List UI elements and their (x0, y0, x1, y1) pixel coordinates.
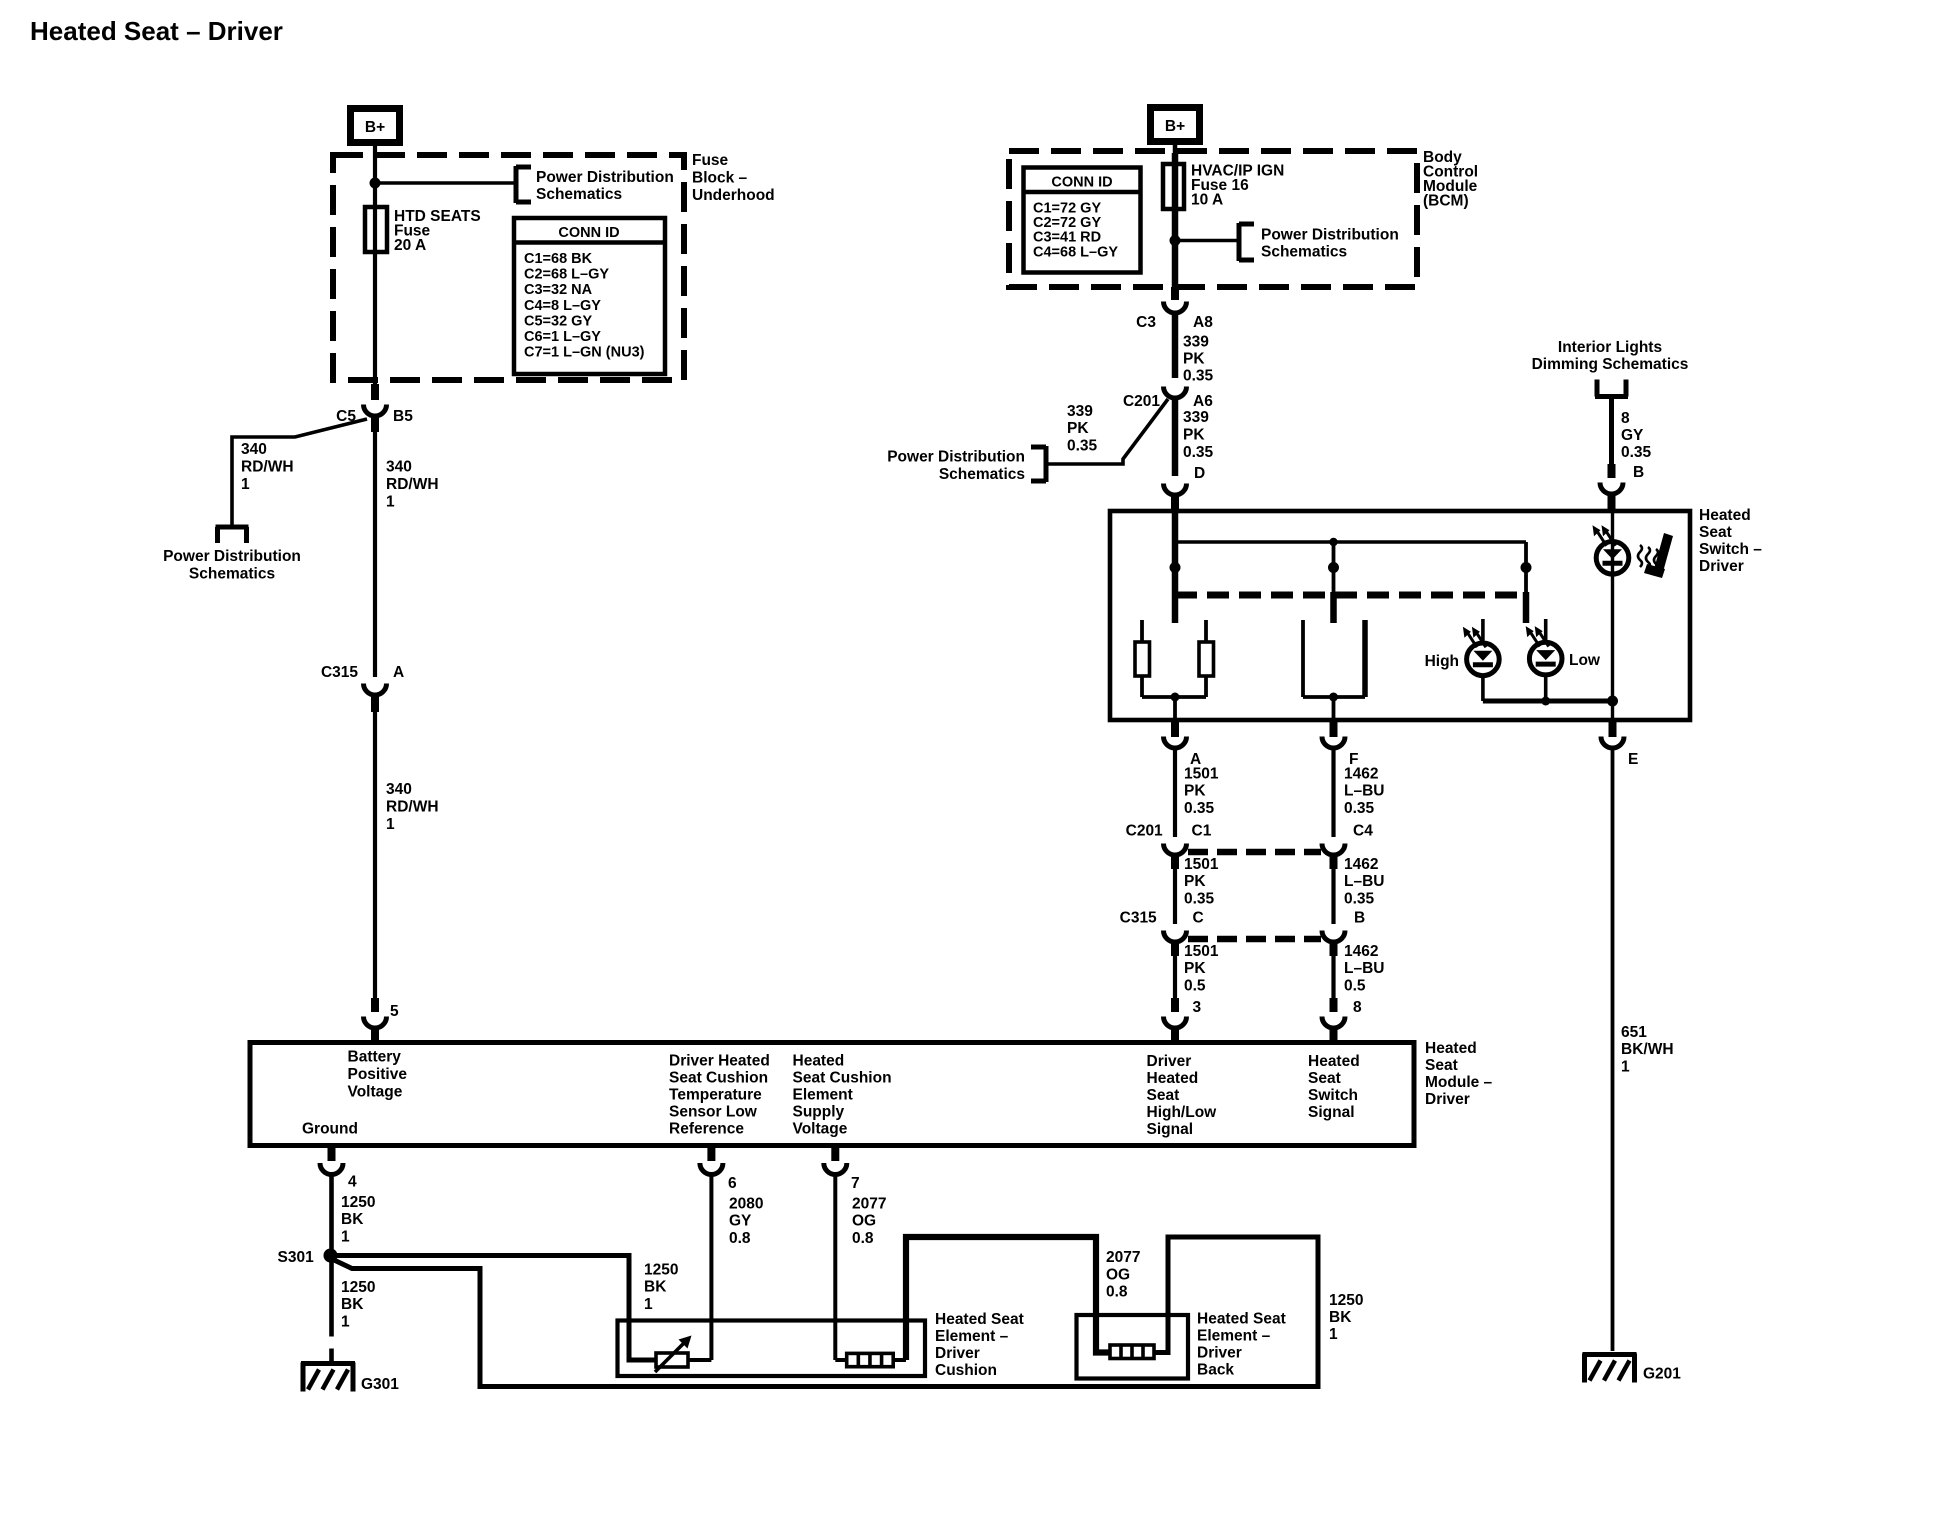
connector pin 6 (module) (700, 1163, 737, 1192)
svg-text:B+: B+ (365, 119, 385, 136)
svg-text:0.35: 0.35 (1621, 444, 1652, 461)
svg-text:1250: 1250 (341, 1279, 375, 1296)
svg-text:C6=1 L–GY: C6=1 L–GY (524, 329, 601, 345)
svg-text:Module –: Module – (1425, 1074, 1493, 1091)
label Battery Positive Voltage (348, 1049, 408, 1101)
wire pin 6 to temp sensor (707, 1148, 715, 1360)
heater element driver back (1110, 1345, 1154, 1359)
svg-text:1250: 1250 (644, 1262, 678, 1279)
svg-text:PK: PK (1183, 427, 1205, 444)
svg-text:CONN ID: CONN ID (558, 225, 619, 241)
LED switch illumination (power indicator) (1593, 512, 1629, 701)
svg-text:1501: 1501 (1184, 943, 1219, 960)
svg-text:Switch: Switch (1308, 1087, 1358, 1104)
wire pole 2 (1332, 542, 1336, 623)
heated seat module box (250, 1043, 1414, 1146)
ground G301 (301, 1363, 399, 1394)
svg-text:C1=68 BK: C1=68 BK (524, 251, 593, 267)
connector pin F (switch) (1322, 737, 1358, 769)
label 1250 BK 1 (sensor leg) (644, 1262, 678, 1314)
svg-text:0.35: 0.35 (1344, 891, 1375, 908)
svg-text:Power Distribution: Power Distribution (887, 449, 1025, 466)
svg-text:4: 4 (348, 1174, 357, 1191)
node junction on left feed (370, 178, 381, 189)
svg-text:B5: B5 (393, 408, 413, 425)
svg-text:Driver: Driver (935, 1345, 980, 1362)
connector C315 / B (1322, 910, 1365, 957)
wire junction to bracket (BCM) (1175, 239, 1238, 243)
svg-text:Seat: Seat (1699, 524, 1732, 541)
svg-text:1462: 1462 (1344, 943, 1378, 960)
svg-text:10 A: 10 A (1191, 192, 1223, 209)
svg-text:BK: BK (644, 1279, 667, 1296)
connector C315 / C (1120, 910, 1204, 957)
node pole dots (1170, 562, 1532, 573)
wire pin E stub (1611, 701, 1614, 737)
svg-text:High: High (1425, 653, 1459, 670)
label Body Control Module (BCM) (1423, 149, 1478, 210)
svg-text:Heated: Heated (1308, 1053, 1360, 1070)
svg-text:Heated Seat: Heated Seat (1197, 1311, 1286, 1328)
svg-text:CONN ID: CONN ID (1051, 175, 1112, 191)
svg-text:5: 5 (390, 1003, 399, 1020)
svg-text:1462: 1462 (1344, 856, 1378, 873)
heated seat switch box (1110, 511, 1690, 720)
svg-text:Schematics: Schematics (939, 466, 1025, 483)
svg-text:C315: C315 (1120, 910, 1161, 927)
wire C315 to module pin 5 (371, 694, 379, 1012)
svg-text:C1=72 GY: C1=72 GY (1033, 201, 1101, 217)
svg-text:Fuse: Fuse (692, 152, 729, 169)
svg-text:Heated: Heated (1147, 1070, 1199, 1087)
label 340 RD/WH 1 (main) (386, 459, 439, 511)
svg-text:C5=32 GY: C5=32 GY (524, 313, 592, 329)
wire pole 3 (1524, 542, 1528, 623)
svg-text:Signal: Signal (1308, 1104, 1355, 1121)
label 339 PK 0.35 / D (1183, 409, 1214, 482)
wire 1501 PK (C201 to C315) (1173, 866, 1177, 924)
wire 8 GY to connector B (1609, 396, 1614, 478)
svg-text:Driver: Driver (1699, 558, 1744, 575)
svg-text:1: 1 (386, 816, 395, 833)
connector pin E (switch) (1601, 737, 1638, 769)
svg-text:C4=68 L–GY: C4=68 L–GY (1033, 244, 1118, 260)
LED Low indicator (1526, 619, 1601, 701)
svg-text:8: 8 (1353, 999, 1362, 1016)
dashed connector link C315 (1188, 936, 1321, 943)
svg-text:A8: A8 (1193, 314, 1213, 331)
label 340 RD/WH 1 (branch) (241, 441, 294, 493)
connector pin 8 (module) (1322, 1017, 1345, 1042)
heated seat element driver cushion box (618, 1321, 926, 1377)
node contact A join (1171, 693, 1180, 702)
svg-text:Seat Cushion: Seat Cushion (793, 1070, 892, 1087)
wire pin A stub (1173, 697, 1177, 737)
connector B (switch) (1600, 483, 1623, 513)
svg-text:E: E (1628, 751, 1638, 768)
svg-text:Signal: Signal (1147, 1121, 1194, 1138)
dashed connector link C201 (1188, 849, 1321, 856)
svg-text:C4: C4 (1353, 823, 1373, 840)
LED High indicator (1425, 619, 1500, 701)
svg-text:A: A (393, 664, 404, 681)
svg-text:Block –: Block – (692, 170, 748, 187)
svg-text:Heated: Heated (793, 1053, 845, 1070)
svg-text:RD/WH: RD/WH (241, 459, 294, 476)
svg-text:0.35: 0.35 (1183, 368, 1214, 385)
svg-text:B: B (1354, 910, 1365, 927)
svg-text:PK: PK (1184, 783, 1206, 800)
wire D pole feed inside switch (1172, 512, 1179, 623)
svg-text:C2=68 L–GY: C2=68 L–GY (524, 267, 609, 283)
svg-text:7: 7 (851, 1175, 860, 1192)
svg-text:Element –: Element – (1197, 1328, 1271, 1345)
wire junction to power distribution bracket (375, 181, 516, 185)
off-page reference Power Distribution Schematics (left) (163, 527, 301, 583)
label 8 GY 0.35 / B (1621, 410, 1652, 481)
power symbol B+ (left) (351, 109, 400, 143)
svg-text:Heated: Heated (1425, 1040, 1477, 1057)
wire 1462 L-BU (F to C201) (1331, 748, 1335, 837)
svg-text:0.8: 0.8 (852, 1230, 874, 1247)
label 1462 L-BU 0.35 (mid) (1344, 856, 1384, 908)
svg-text:Seat: Seat (1308, 1070, 1341, 1087)
svg-text:1501: 1501 (1184, 856, 1219, 873)
svg-text:High/Low: High/Low (1147, 1104, 1218, 1121)
svg-text:340: 340 (241, 441, 267, 458)
power symbol B+ (right) (1151, 108, 1200, 142)
svg-text:6: 6 (728, 1175, 737, 1192)
svg-text:OG: OG (1106, 1267, 1130, 1284)
node LED bus dots (1541, 696, 1618, 707)
connector C201 / C4 (1322, 823, 1373, 870)
svg-text:Power Distribution: Power Distribution (163, 548, 301, 565)
wire 1501 PK (A to C201) (1173, 748, 1177, 837)
svg-text:340: 340 (386, 459, 412, 476)
svg-text:C201: C201 (1123, 393, 1160, 410)
svg-text:Driver: Driver (1147, 1053, 1192, 1070)
svg-text:Back: Back (1197, 1362, 1234, 1379)
svg-text:C: C (1193, 910, 1204, 927)
body control module dashed box (1009, 151, 1417, 287)
wire 651 BK/WH (E to G201) (1611, 748, 1615, 1351)
svg-text:GY: GY (729, 1213, 752, 1230)
connector C5 / B5 (336, 405, 413, 426)
wire switch feed bus (1175, 540, 1526, 544)
wire B5 to C315 (340 RD/WH) (371, 415, 379, 677)
wire 339 PK C201 to D (1172, 398, 1179, 476)
CONN ID table (fuse block underhood) (514, 218, 665, 374)
svg-text:Low: Low (1569, 652, 1601, 669)
svg-text:0.35: 0.35 (1184, 800, 1215, 817)
wire 1501 PK (C315 to pin 3) (1173, 953, 1177, 1012)
svg-text:340: 340 (386, 781, 412, 798)
svg-text:PK: PK (1184, 960, 1206, 977)
svg-text:C4=8 L–GY: C4=8 L–GY (524, 298, 601, 314)
svg-text:C3=32 NA: C3=32 NA (524, 282, 593, 298)
svg-text:0.5: 0.5 (1184, 978, 1206, 995)
connector C315 / A (left) (321, 664, 404, 695)
connector C3 / A8 (1136, 302, 1213, 332)
svg-text:1250: 1250 (1329, 1292, 1363, 1309)
svg-text:Sensor Low: Sensor Low (669, 1104, 758, 1121)
svg-text:PK: PK (1183, 351, 1205, 368)
label Heated Seat Switch Signal (1308, 1053, 1360, 1121)
svg-text:Reference: Reference (669, 1121, 744, 1138)
wire 1250 BK pin 4 to S301 (329, 1174, 334, 1250)
svg-text:BK: BK (341, 1211, 364, 1228)
label Driver Heated Seat High/Low Signal (1147, 1053, 1218, 1138)
label Heated Seat Element - Driver Back (1197, 1311, 1286, 1379)
svg-text:BK: BK (1329, 1309, 1352, 1326)
label Fuse Block - Underhood (692, 152, 775, 204)
wire BCM to C3 (1171, 287, 1179, 300)
splice S301 (277, 1249, 337, 1267)
svg-text:1: 1 (644, 1296, 653, 1313)
label Heated Seat Cushion Element Supply Voltage (793, 1053, 892, 1138)
svg-text:1: 1 (1329, 1326, 1338, 1343)
label 340 RD/WH 1 (lower) (386, 781, 439, 833)
heated seat element driver back box (1077, 1315, 1189, 1379)
svg-text:1501: 1501 (1184, 766, 1219, 783)
svg-text:Element: Element (793, 1087, 853, 1104)
svg-text:PK: PK (1067, 420, 1089, 437)
svg-text:339: 339 (1183, 409, 1209, 426)
label Heated Seat Module - Driver (1425, 1040, 1493, 1108)
svg-text:0.35: 0.35 (1183, 444, 1214, 461)
svg-text:0.8: 0.8 (729, 1230, 751, 1247)
svg-text:0.35: 0.35 (1067, 438, 1098, 455)
svg-text:Seat: Seat (1147, 1087, 1180, 1104)
mechanical link dashed (switch) (1175, 592, 1528, 599)
svg-text:Interior Lights: Interior Lights (1558, 339, 1662, 356)
svg-text:2077: 2077 (852, 1196, 886, 1213)
svg-text:Heated Seat: Heated Seat (935, 1311, 1024, 1328)
node contact F join (1329, 693, 1338, 702)
heater element driver cushion (835, 1353, 906, 1366)
label 1250 BK 1 (ground leg) (341, 1279, 375, 1331)
node bus tee (1329, 538, 1337, 546)
svg-text:C2=72 GY: C2=72 GY (1033, 215, 1101, 231)
connector pin 4 (module) (320, 1148, 357, 1191)
ground G201 (1583, 1354, 1682, 1383)
label 2077 OG 0.8 (pin 7) (852, 1196, 886, 1248)
svg-text:Supply: Supply (793, 1104, 845, 1121)
label 2077 OG 0.8 (jumper) (1106, 1249, 1140, 1301)
svg-text:2077: 2077 (1106, 1249, 1140, 1266)
label Heated Seat Switch - Driver (1699, 507, 1762, 575)
svg-text:A6: A6 (1193, 393, 1213, 410)
svg-text:S301: S301 (277, 1249, 318, 1266)
label HVAC/IP IGN Fuse 16 10 A (1191, 163, 1284, 209)
connector C201 / A6 (1123, 387, 1213, 411)
svg-text:Power Distribution: Power Distribution (1261, 227, 1399, 244)
svg-text:Seat: Seat (1425, 1057, 1458, 1074)
connector pin A (switch) (1164, 737, 1202, 769)
fuse HTD SEATS 20 A (365, 207, 387, 252)
svg-text:2080: 2080 (729, 1196, 763, 1213)
svg-text:C315: C315 (321, 664, 358, 681)
svg-text:GY: GY (1621, 427, 1644, 444)
svg-text:Seat Cushion: Seat Cushion (669, 1070, 768, 1087)
svg-text:20 A: 20 A (394, 237, 426, 254)
svg-text:B+: B+ (1165, 118, 1185, 135)
svg-text:Temperature: Temperature (669, 1087, 762, 1104)
svg-text:1250: 1250 (341, 1194, 375, 1211)
fuse HVAC/IP IGN Fuse 16 10 A (1163, 164, 1184, 209)
svg-text:8: 8 (1621, 410, 1630, 427)
svg-text:Heated: Heated (1699, 507, 1751, 524)
svg-text:OG: OG (852, 1213, 876, 1230)
off-page reference Interior Lights Dimming Schematics (1532, 339, 1689, 397)
svg-text:BK/WH: BK/WH (1621, 1041, 1674, 1058)
wire 2077 OG cushion to back element (906, 1237, 1110, 1360)
label 1462 L-BU 0.5 / 8 (1344, 943, 1384, 1016)
svg-text:Underhood: Underhood (692, 187, 775, 204)
svg-text:1: 1 (1621, 1059, 1630, 1076)
svg-text:(BCM): (BCM) (1423, 193, 1469, 210)
wire C5 branch to power distribution (diagonal) (232, 419, 367, 526)
svg-text:Ground: Ground (302, 1121, 358, 1138)
wire C201 branch diagonal to power distribution (1047, 399, 1168, 464)
label 651 BK/WH 1 (1621, 1024, 1674, 1076)
svg-text:C1: C1 (1192, 823, 1212, 840)
wire LED return bus (1483, 699, 1613, 704)
svg-text:Driver Heated: Driver Heated (669, 1053, 770, 1070)
connector C201 / C1 (1126, 823, 1212, 870)
svg-text:0.35: 0.35 (1344, 800, 1375, 817)
wire 1462 L-BU (C201 to C315) (1331, 866, 1335, 924)
svg-text:C7=1 L–GN (NU3): C7=1 L–GN (NU3) (524, 345, 645, 361)
off-page reference Power Distribution Schematics (BCM) (1239, 223, 1399, 261)
svg-text:D: D (1194, 465, 1205, 482)
node junction (BCM power dist) (1170, 235, 1181, 246)
svg-text:1: 1 (241, 476, 250, 493)
connector pin 7 (module) (824, 1163, 860, 1192)
wire pin F stub (1332, 697, 1336, 737)
icon heated seat (1638, 533, 1673, 578)
svg-text:1: 1 (386, 494, 395, 511)
svg-text:C201: C201 (1126, 823, 1167, 840)
svg-text:3: 3 (1193, 999, 1202, 1016)
svg-text:1462: 1462 (1344, 766, 1378, 783)
wire fuse to BCM exit (1172, 164, 1179, 287)
svg-text:Voltage: Voltage (793, 1121, 848, 1138)
svg-text:Schematics: Schematics (189, 566, 275, 583)
svg-text:Heated Seat – Driver: Heated Seat – Driver (30, 16, 283, 46)
wire B+ into BCM (1173, 145, 1178, 166)
label 1501 PK 0.35 (A) (1184, 766, 1219, 818)
svg-text:1: 1 (341, 1314, 350, 1331)
svg-text:Schematics: Schematics (536, 186, 622, 203)
wire pin 7 to cushion element (831, 1148, 839, 1360)
svg-text:RD/WH: RD/WH (386, 476, 439, 493)
label 2080 GY 0.8 (729, 1196, 763, 1248)
svg-text:C3: C3 (1136, 314, 1156, 331)
label 339 PK 0.35 (branch) (1067, 403, 1098, 455)
wire 339 PK C3 to C201 (1172, 313, 1179, 378)
svg-text:Dimming Schematics: Dimming Schematics (1532, 356, 1689, 373)
svg-text:Driver: Driver (1425, 1091, 1470, 1108)
svg-text:B: B (1633, 464, 1644, 481)
fuse block underhood dashed box (333, 155, 684, 380)
svg-text:L–BU: L–BU (1344, 960, 1384, 977)
svg-text:0.8: 0.8 (1106, 1284, 1128, 1301)
off-page reference Power Distribution Schematics (fuse block) (516, 166, 674, 203)
label Ground (302, 1121, 358, 1138)
connector D (switch) (1164, 484, 1187, 513)
wire B+ to fuse block (left) (373, 146, 377, 400)
switch contact pair A with resistors (1135, 620, 1214, 697)
svg-text:0.5: 0.5 (1344, 978, 1366, 995)
svg-text:651: 651 (1621, 1024, 1647, 1041)
svg-text:339: 339 (1067, 403, 1093, 420)
svg-text:G301: G301 (361, 1376, 399, 1393)
svg-text:Driver: Driver (1197, 1345, 1242, 1362)
wire S301 to cushion temp sensor (334, 1256, 656, 1361)
connector pin 5 (module) (364, 1003, 400, 1041)
svg-text:0.35: 0.35 (1184, 891, 1215, 908)
svg-text:Power Distribution: Power Distribution (536, 169, 674, 186)
svg-text:Battery: Battery (348, 1049, 402, 1066)
svg-text:Cushion: Cushion (935, 1362, 997, 1379)
svg-text:BK: BK (341, 1296, 364, 1313)
svg-text:Schematics: Schematics (1261, 244, 1347, 261)
CONN ID table (BCM) (1024, 168, 1141, 273)
label 1462 L-BU 0.35 (F) (1344, 766, 1384, 818)
svg-text:339: 339 (1183, 334, 1209, 351)
svg-text:C3=41 RD: C3=41 RD (1033, 230, 1101, 246)
label HTD SEATS Fuse 20 A (394, 208, 481, 254)
svg-text:Element –: Element – (935, 1328, 1009, 1345)
label 339 PK 0.35 (upper) (1183, 334, 1214, 385)
wire S301 element ground return (334, 1237, 1318, 1387)
svg-text:Switch –: Switch – (1699, 541, 1762, 558)
off-page reference Power Distribution Schematics (C201 branch) (887, 446, 1046, 483)
wire S301 to G301 (329, 1262, 334, 1363)
label Heated Seat Element - Driver Cushion (935, 1311, 1024, 1379)
thermistor (cushion temperature sensor) (655, 1336, 711, 1373)
svg-text:L–BU: L–BU (1344, 873, 1384, 890)
wire 1462 L-BU (C315 to pin 8) (1331, 953, 1335, 1012)
svg-text:L–BU: L–BU (1344, 783, 1384, 800)
connector pin 3 (module) (1164, 1017, 1187, 1042)
svg-text:1: 1 (341, 1229, 350, 1246)
svg-text:PK: PK (1184, 873, 1206, 890)
svg-text:RD/WH: RD/WH (386, 799, 439, 816)
svg-text:Voltage: Voltage (348, 1084, 403, 1101)
svg-text:G201: G201 (1643, 1366, 1681, 1383)
label 1250 BK 1 (return) (1329, 1292, 1363, 1343)
switch contact pair F (1303, 620, 1365, 697)
label 1501 PK 0.35 (mid) (1184, 856, 1219, 908)
label 1501 PK 0.5 / 3 (1184, 943, 1219, 1016)
label Driver Heated Seat Cushion Temperature Sensor Low Reference (669, 1053, 770, 1138)
label 1250 BK 1 (pin 4) (341, 1194, 375, 1246)
svg-text:Positive: Positive (348, 1066, 408, 1083)
